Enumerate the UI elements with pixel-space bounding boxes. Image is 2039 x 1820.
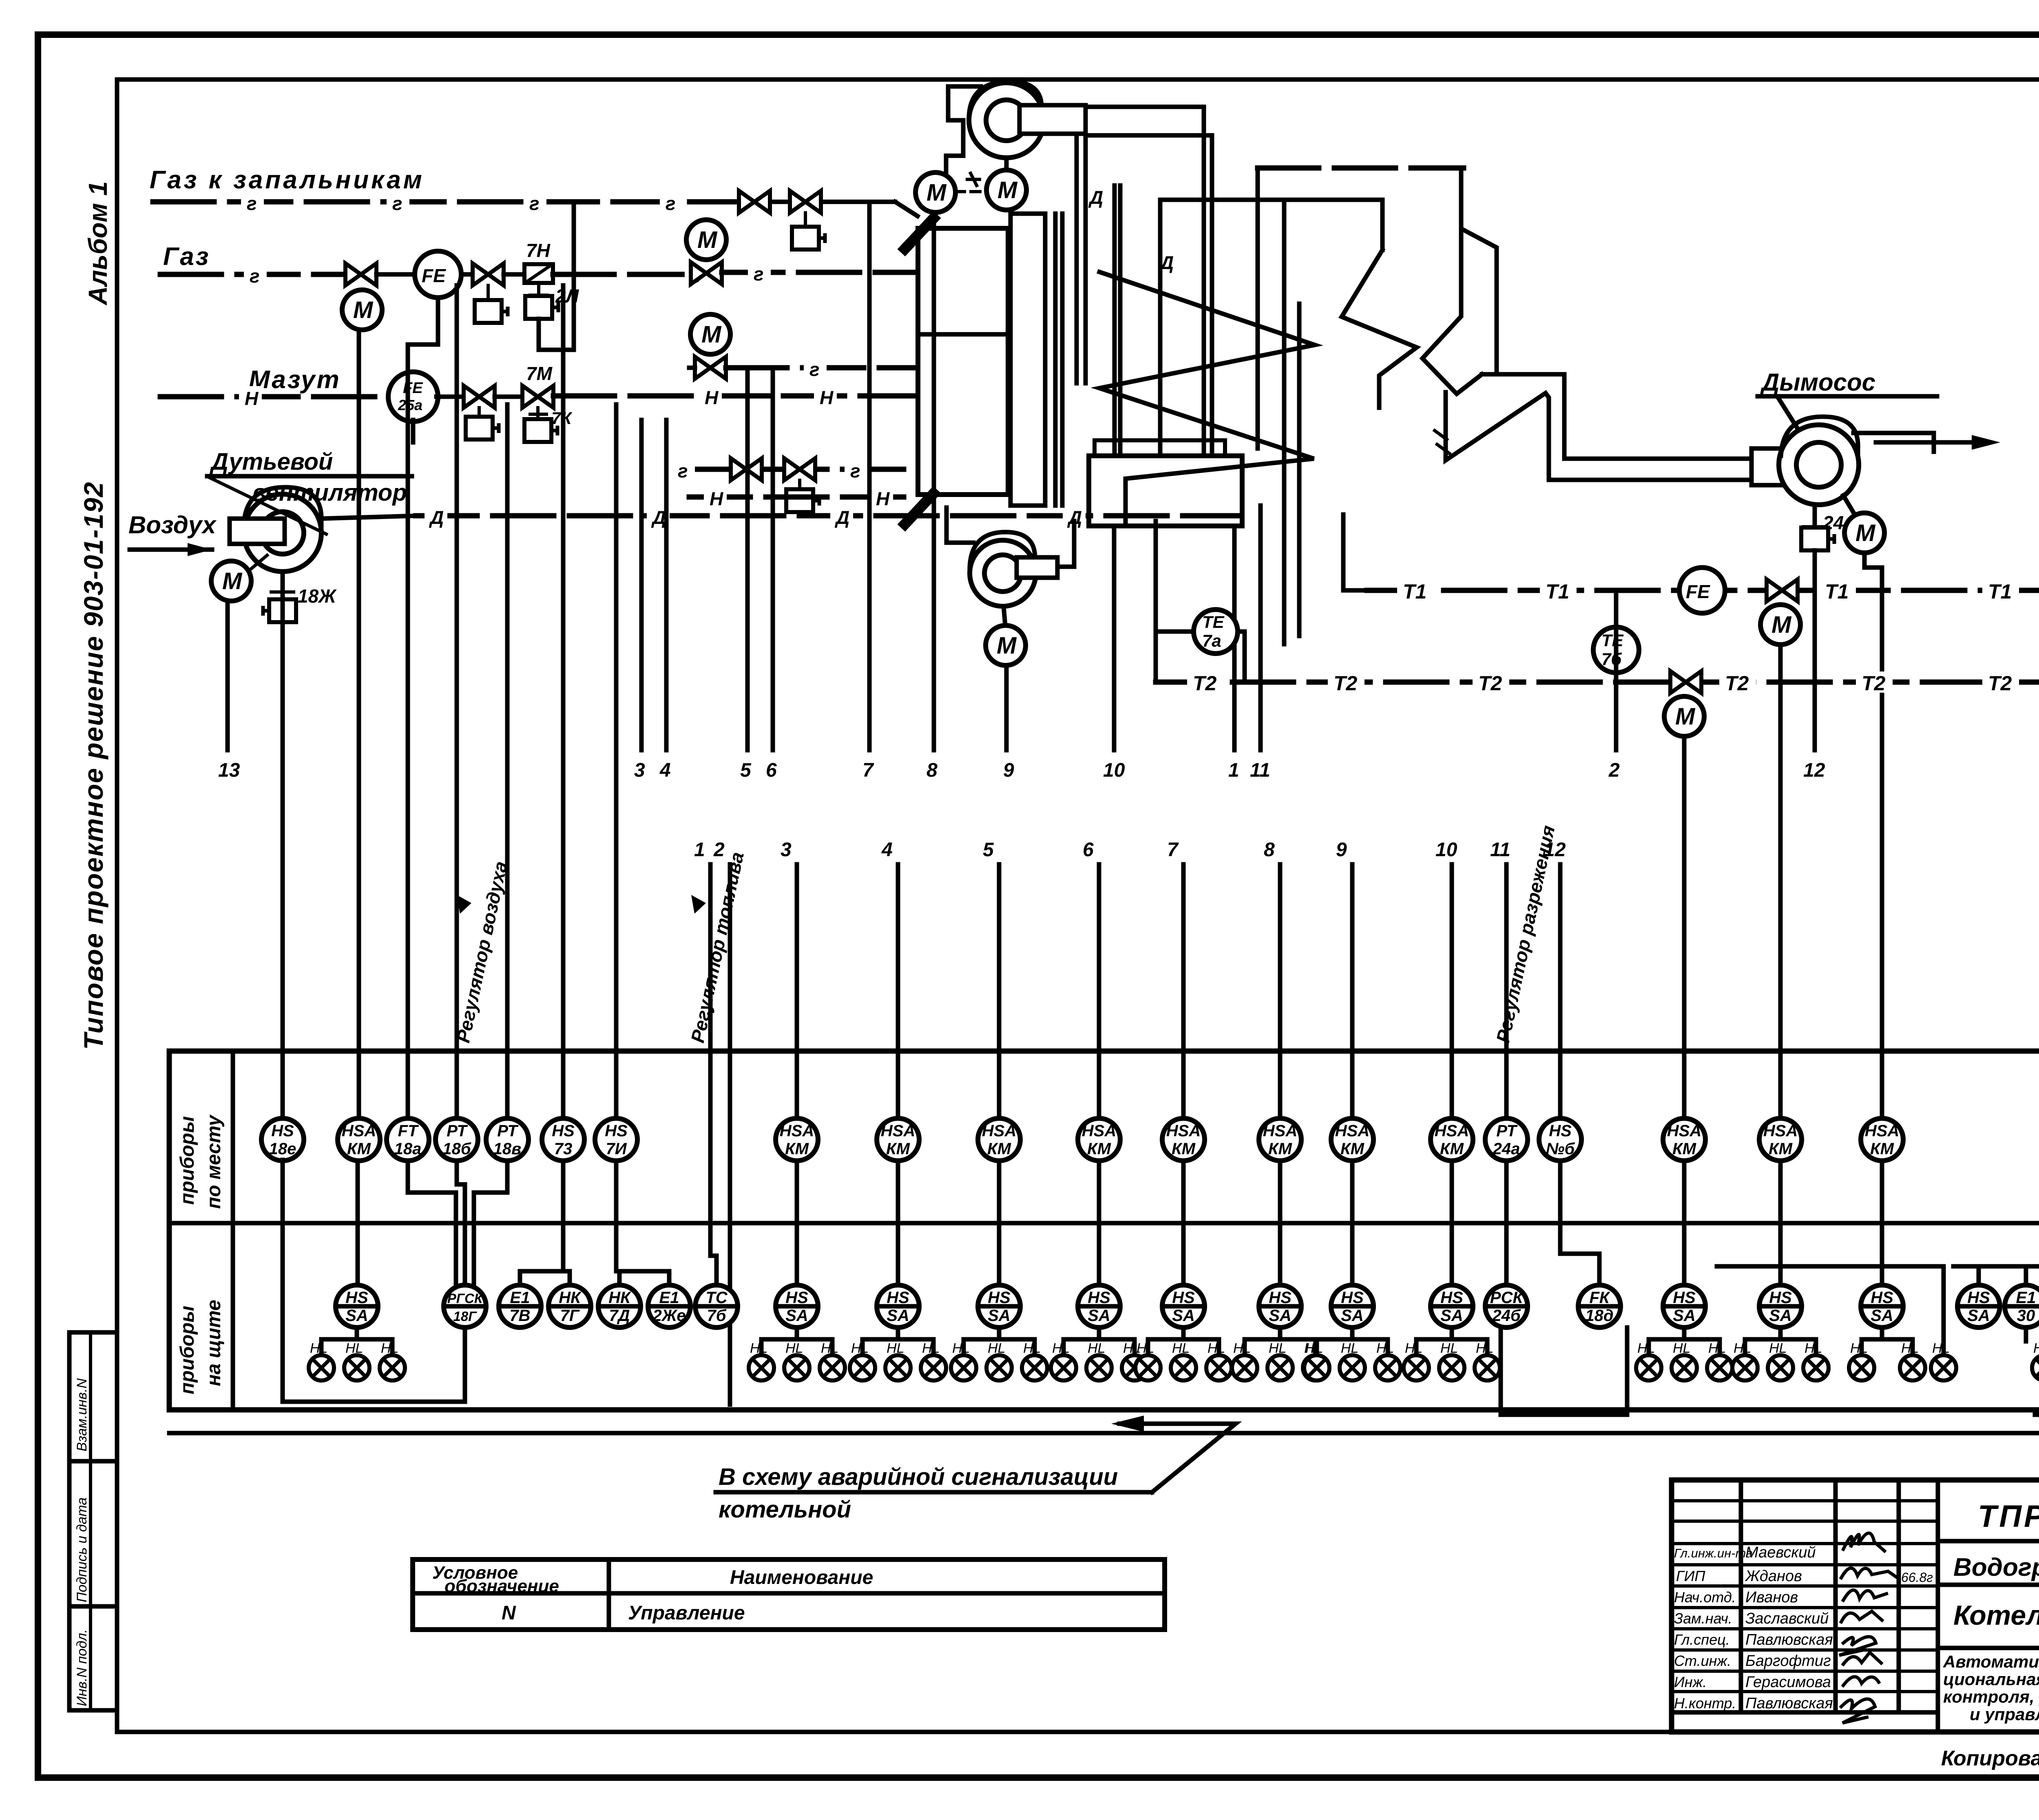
- lamp HL x4565: [1849, 1355, 1874, 1380]
- svg-text:НL: НL: [821, 1341, 838, 1356]
- wire between rows x4366: [1778, 1160, 1783, 1285]
- svg-text:г: г: [529, 193, 540, 214]
- svg-text:РГСК: РГСК: [447, 1291, 484, 1306]
- svg-text:Н: Н: [820, 387, 834, 408]
- top recirculation fan scroll: [969, 83, 1044, 158]
- device 2Л below 7Н: [537, 283, 540, 295]
- svg-text:НL: НL: [1305, 1341, 1323, 1356]
- lamp HL x2815: [1135, 1355, 1161, 1380]
- svg-text:Т2: Т2: [1193, 672, 1217, 695]
- svg-text:Т1: Т1: [1403, 580, 1426, 603]
- tower2 right wall: [1464, 230, 1497, 373]
- svg-text:Н: Н: [705, 387, 719, 408]
- svg-text:ТЕ: ТЕ: [1601, 631, 1624, 650]
- blower intake duct: [230, 519, 285, 544]
- wire FT18a into RGSK: [408, 1160, 456, 1286]
- svg-text:SА: SА: [1088, 1307, 1110, 1325]
- valve on T1 with motor: [1767, 579, 1798, 601]
- svg-text:НК: НК: [608, 1289, 631, 1307]
- svg-text:Мазут: Мазут: [249, 366, 341, 394]
- svg-text:РТ: РТ: [447, 1122, 468, 1140]
- motor of bottom fan: [986, 625, 1026, 665]
- furnace walls: [1011, 214, 1045, 506]
- svg-text:на щите: на щите: [203, 1300, 225, 1386]
- instrument ТС-7б x1757: [695, 1285, 738, 1327]
- outlet arrow: [1876, 440, 1986, 445]
- svg-text:КМ: КМ: [1672, 1140, 1697, 1158]
- svg-text:9: 9: [1003, 760, 1014, 781]
- lamp HL x2202: [885, 1355, 911, 1380]
- exhauster scroll: [1779, 425, 1859, 505]
- wire panel line 3: [795, 864, 799, 1119]
- svg-text:НL: НL: [1207, 1341, 1225, 1356]
- actuator mark: [967, 173, 980, 186]
- svg-text:24б: 24б: [1492, 1307, 1521, 1325]
- svg-text:SА: SА: [1440, 1307, 1463, 1325]
- wire panel line 11: [1504, 864, 1509, 1119]
- svg-text:Гл.инж.ин-та: Гл.инж.ин-та: [1674, 1546, 1753, 1560]
- instrument НSА-КМ x2450: [978, 1118, 1020, 1161]
- svg-text:66.8г: 66.8г: [1901, 1570, 1933, 1585]
- instrument НSА-КМ x4130: [1663, 1118, 1705, 1161]
- svg-text:24а: 24а: [1493, 1140, 1520, 1158]
- svg-text:ГИП: ГИП: [1676, 1568, 1705, 1584]
- svg-text:18в: 18в: [493, 1140, 522, 1158]
- svg-text:7Н: 7Н: [526, 240, 551, 261]
- svg-text:НS: НS: [1440, 1289, 1463, 1307]
- wire HS7I bracket: [616, 1160, 669, 1285]
- svg-text:SА: SА: [1673, 1307, 1696, 1325]
- wire between rows x2450: [997, 1160, 1002, 1285]
- lamp HL x3647: [1475, 1355, 1500, 1380]
- line from box24 down (line 12): [1813, 550, 1817, 750]
- svg-text:FК: FК: [1589, 1289, 1610, 1307]
- fan outlet: [1019, 105, 1086, 134]
- svg-text:3: 3: [781, 839, 792, 861]
- instrument НSА-КМ x4615: [1861, 1118, 1903, 1161]
- svg-text:КМ: КМ: [1870, 1140, 1895, 1158]
- break marks on downcomer: [1435, 431, 1449, 453]
- svg-text:КМ: КМ: [1340, 1140, 1365, 1158]
- svg-text:контроля, регулирования: контроля, регулирования: [1943, 1687, 2039, 1706]
- instrument НК-7Г x1397: [548, 1285, 591, 1327]
- svg-text:7Г: 7Г: [560, 1307, 580, 1325]
- svg-text:Павлювская: Павлювская: [1745, 1631, 1833, 1648]
- svg-text:НL: НL: [952, 1341, 970, 1356]
- gas shutoff valve: [345, 263, 376, 285]
- svg-text:КМ: КМ: [1268, 1140, 1293, 1158]
- lamp HL x4766: [1931, 1355, 1956, 1380]
- T2 pipe: [1154, 521, 1158, 682]
- svg-text:73: 73: [554, 1140, 573, 1158]
- svg-text:Т1: Т1: [1546, 580, 1569, 603]
- svg-text:КМ: КМ: [1769, 1140, 1793, 1158]
- instrument НS-SА x3316: [1331, 1285, 1373, 1327]
- svg-text:№б: №б: [1546, 1140, 1575, 1158]
- wire between rows x2202: [896, 1160, 900, 1285]
- wire lamp bracket group x2202: [862, 1327, 933, 1354]
- svg-text:НSА: НSА: [1435, 1122, 1469, 1140]
- svg-text:НS: НS: [887, 1289, 909, 1307]
- svg-text:НL: НL: [345, 1341, 363, 1356]
- svg-text:котельной: котельной: [719, 1496, 851, 1523]
- lamp HL x2695: [1086, 1355, 1112, 1380]
- svg-text:НSА: НSА: [1166, 1122, 1201, 1140]
- svg-text:2Же: 2Же: [652, 1307, 686, 1325]
- svg-text:НL: НL: [2033, 1341, 2039, 1356]
- svg-text:4: 4: [659, 760, 671, 781]
- svg-text:Ст.инж.: Ст.инж.: [1674, 1652, 1731, 1669]
- economizer slab: [1095, 440, 1225, 456]
- instrument Е1-7В x1275: [499, 1285, 541, 1327]
- svg-text:Т2: Т2: [1988, 672, 2012, 695]
- wire lamp bracket group x4366: [1745, 1327, 1816, 1354]
- wire bus to lamp 5277: [2026, 1327, 2039, 1415]
- instrument FТ-18а x1000: [387, 1118, 429, 1161]
- svg-text:10: 10: [1435, 839, 1457, 861]
- boiler top edges: [1160, 198, 1382, 202]
- instrument НS-SА x1954: [776, 1285, 818, 1327]
- svg-text:7Д: 7Д: [609, 1307, 630, 1325]
- TE 7b sensor on line 2: [1593, 627, 1639, 673]
- svg-text:7И: 7И: [606, 1140, 627, 1158]
- line 8: [932, 214, 936, 750]
- wire HS73 bracket: [520, 1160, 570, 1285]
- instrument НSА-КМ x1954: [776, 1118, 818, 1161]
- instrument НSА-КМ x3560: [1431, 1118, 1473, 1161]
- svg-text:Т1: Т1: [1825, 580, 1849, 603]
- burner slash bottom: [901, 490, 937, 528]
- blower fan scroll: [244, 494, 321, 572]
- svg-text:SА: SА: [1769, 1307, 1792, 1325]
- furnace box: [918, 228, 1008, 495]
- svg-text:НS: НS: [271, 1122, 294, 1140]
- svg-text:Водогрейные котлы типа КВ-ГМ: Водогрейные котлы типа КВ-ГМ: [1953, 1553, 2039, 1581]
- svg-text:НК: НК: [559, 1289, 582, 1307]
- svg-text:SА: SА: [1967, 1307, 1990, 1325]
- wire RGSK down: [283, 1160, 465, 1402]
- TE 7a sensor: [1194, 610, 1238, 654]
- svg-text:5: 5: [983, 839, 994, 861]
- svg-text:SА: SА: [785, 1307, 808, 1325]
- svg-text:Е1: Е1: [2016, 1289, 2036, 1307]
- svg-text:Газ: Газ: [163, 243, 210, 271]
- lamp HL x5014: [2032, 1355, 2039, 1380]
- svg-text:6: 6: [1083, 839, 1094, 861]
- svg-text:18б: 18б: [442, 1140, 471, 1158]
- svg-text:Т2: Т2: [1862, 672, 1886, 695]
- mazut valve with box: [464, 386, 495, 408]
- svg-text:Инв.N подл.: Инв.N подл.: [74, 1629, 90, 1706]
- wire lamp bracket group x2695: [1064, 1327, 1134, 1354]
- svg-text:12: 12: [1803, 760, 1825, 781]
- lamp HL x2289: [921, 1355, 946, 1380]
- instrument НSА-КМ x4366: [1759, 1118, 1802, 1161]
- wire RSK-FK loop: [1501, 1327, 1627, 1415]
- svg-text:НS: НS: [552, 1122, 575, 1140]
- svg-text:КМ: КМ: [886, 1140, 911, 1158]
- svg-text:г: г: [247, 193, 257, 214]
- line 13 from blower motor: [226, 601, 230, 750]
- svg-text:приборы: приборы: [177, 1306, 198, 1394]
- svg-text:25а: 25а: [398, 397, 422, 413]
- svg-text:7М: 7М: [526, 363, 553, 384]
- svg-text:по месту: по месту: [203, 1114, 225, 1209]
- svg-text:НL: НL: [1769, 1341, 1787, 1356]
- svg-text:Наименование: Наименование: [730, 1567, 873, 1588]
- svg-text:30: 30: [2017, 1307, 2035, 1325]
- svg-text:НL: НL: [381, 1341, 398, 1356]
- svg-text:НSА: НSА: [1667, 1122, 1701, 1140]
- svg-text:Д: Д: [651, 507, 666, 528]
- instrument НSА-КМ x3316: [1331, 1118, 1373, 1161]
- instrument НS-SА x3560: [1431, 1285, 1473, 1327]
- svg-text:2: 2: [1608, 760, 1620, 781]
- motor of gas valve: [342, 290, 382, 330]
- wire line PT18v: [505, 404, 510, 1119]
- svg-text:4: 4: [881, 839, 893, 861]
- exhauster motor: [1844, 513, 1884, 553]
- svg-text:Т2: Т2: [1334, 672, 1358, 695]
- svg-text:Инж.: Инж.: [1674, 1674, 1707, 1690]
- line 6: [771, 372, 775, 750]
- instrument НS-SА x4366: [1759, 1285, 1802, 1327]
- svg-text:13: 13: [218, 760, 240, 781]
- lamp HL x3403: [1375, 1355, 1400, 1380]
- svg-text:НSА: НSА: [1335, 1122, 1369, 1140]
- left grid rows: [1672, 1499, 1938, 1502]
- instrument НS-73 x1381: [542, 1118, 584, 1161]
- svg-text:FЕ: FЕ: [1686, 581, 1710, 602]
- lamp HL x3139: [1267, 1355, 1293, 1380]
- left grid columns: [1739, 1480, 1743, 1712]
- svg-text:НL: НL: [1932, 1341, 1950, 1356]
- svg-text:КМ: КМ: [347, 1140, 372, 1158]
- line from motor down to panel: [1864, 553, 1882, 1120]
- valve on T2 with motor: [1670, 671, 1701, 693]
- svg-text:2Л: 2Л: [555, 285, 579, 307]
- instrument РТ-24а x3694: [1485, 1118, 1528, 1161]
- instrument РТ-18б x1120: [436, 1118, 478, 1161]
- svg-text:НL: НL: [1734, 1341, 1751, 1356]
- economizer box: [1089, 456, 1242, 526]
- svg-text:ТЕ: ТЕ: [1202, 612, 1225, 632]
- svg-text:КМ: КМ: [1172, 1140, 1196, 1158]
- svg-text:Дымосос: Дымосос: [1760, 369, 1875, 396]
- wire panel line 10: [1450, 864, 1454, 1119]
- wire panel line 8: [1278, 864, 1283, 1119]
- svg-text:НL: НL: [1137, 1341, 1154, 1356]
- line 3: [639, 420, 644, 750]
- svg-text:НL: НL: [785, 1341, 803, 1356]
- svg-text:НS: НS: [1088, 1289, 1110, 1307]
- svg-text:РСК: РСК: [1490, 1289, 1524, 1307]
- svg-text:Н.контр.: Н.контр.: [1674, 1695, 1736, 1712]
- svg-text:Т1: Т1: [1988, 580, 2012, 603]
- svg-text:11: 11: [1490, 839, 1510, 861]
- svg-text:НS: НS: [1549, 1122, 1572, 1140]
- svg-text:Н: Н: [876, 488, 890, 509]
- svg-text:Е1: Е1: [659, 1289, 679, 1307]
- left margin vertical titles: [78, 181, 113, 1050]
- svg-text:РТ: РТ: [1496, 1122, 1518, 1140]
- svg-text:г: г: [754, 263, 764, 285]
- svg-text:7: 7: [862, 760, 874, 781]
- svg-text:Дутьевой: Дутьевой: [209, 448, 333, 475]
- wire between rows x3694: [1504, 1160, 1509, 1285]
- svg-text:КМ: КМ: [1087, 1140, 1112, 1158]
- wire between rows x3139: [1278, 1160, 1283, 1285]
- svg-text:приборы: приборы: [177, 1116, 198, 1205]
- svg-text:SА: SА: [1269, 1307, 1292, 1325]
- lamp HL x2450: [986, 1355, 1012, 1380]
- svg-text:г: г: [809, 359, 820, 380]
- instrument РТ-18в x1244: [486, 1118, 529, 1161]
- svg-text:Взам.инв.N: Взам.инв.N: [74, 1378, 90, 1451]
- lamp HL x4217: [1707, 1355, 1732, 1380]
- instrument НS-SА x2695: [1078, 1285, 1120, 1327]
- mazut pipe: [160, 394, 389, 400]
- wire between rows x877: [356, 1160, 360, 1285]
- wire line1 to TC7b: [710, 1256, 717, 1285]
- instrument НSА-КМ x880: [338, 1118, 380, 1161]
- instrument РСК-24б x3694: [1485, 1285, 1528, 1327]
- wire between rows x2902: [1181, 1160, 1186, 1285]
- lamp HL x4130: [1672, 1355, 1697, 1380]
- svg-text:НL: НL: [310, 1341, 327, 1356]
- svg-text:SА: SА: [887, 1307, 909, 1325]
- svg-text:НL: НL: [1172, 1341, 1190, 1356]
- wire panel line 2: [728, 864, 732, 1405]
- outlet duct: [1853, 433, 1934, 452]
- instrument НS-7И x1511: [595, 1118, 637, 1161]
- svg-text:8: 8: [927, 760, 938, 781]
- svg-text:РТ: РТ: [497, 1122, 519, 1140]
- instrument НК-7Д x1519: [598, 1285, 641, 1327]
- instrument НS-SА x2450: [978, 1285, 1020, 1327]
- svg-text:НL: НL: [1901, 1341, 1919, 1356]
- lamp HL x3229: [1304, 1355, 1329, 1380]
- wire lamp bracket group x1954: [761, 1327, 832, 1354]
- svg-text:НL: НL: [1673, 1341, 1690, 1356]
- svg-text:6: 6: [766, 760, 777, 781]
- svg-text:18д: 18д: [1585, 1307, 1613, 1325]
- svg-text:НL: НL: [887, 1341, 904, 1356]
- gas branch to burner: [722, 270, 916, 275]
- valve actuator 18Ж: [281, 572, 285, 587]
- left bottom stamp strip: [69, 1332, 117, 1710]
- wire between rows x2695: [1097, 1160, 1101, 1285]
- wire between rows x4130: [1682, 1160, 1687, 1285]
- svg-text:НSА: НSА: [1763, 1122, 1798, 1140]
- wire lamp bracket group x2902: [1148, 1327, 1219, 1354]
- water offtake to T1: [1343, 515, 1367, 590]
- instrument НSА-КМ x2902: [1162, 1118, 1205, 1161]
- svg-text:SА: SА: [1172, 1307, 1195, 1325]
- svg-text:НS: НS: [1673, 1289, 1696, 1307]
- svg-text:Альбом 1: Альбом 1: [83, 181, 113, 306]
- lamp HL x2989: [1206, 1355, 1232, 1380]
- wire PT18b into RGSK: [457, 1160, 465, 1285]
- svg-text:НL: НL: [1637, 1341, 1655, 1356]
- T1 pipe: [1367, 588, 2039, 593]
- tower2 inlet wall: [1380, 200, 1385, 250]
- lamp HL x2782: [1122, 1355, 1147, 1380]
- svg-text:НL: НL: [1708, 1341, 1726, 1356]
- wire line12 to FK18d: [1560, 1160, 1599, 1285]
- wire panel line 1: [708, 864, 713, 1256]
- wire lamp bracket group x3139: [1245, 1327, 1316, 1354]
- valve with box on pilot line: [790, 191, 821, 213]
- line 5: [745, 372, 750, 750]
- instrument НSА-КМ x2202: [877, 1118, 919, 1161]
- svg-text:В схему аварийной сигнализа: В схему аварийной сигнализации: [719, 1464, 1118, 1490]
- signatures scribbles: [1843, 1533, 1884, 1551]
- wire lamp bracket group x4130: [1649, 1327, 1720, 1354]
- wire between rows x1954: [795, 1160, 799, 1285]
- instrument FК-18д x3922: [1578, 1285, 1621, 1327]
- svg-text:НL: НL: [1850, 1341, 1868, 1356]
- svg-text:18а: 18а: [394, 1140, 422, 1158]
- svg-text:11: 11: [1250, 760, 1270, 781]
- heating-surface zigzag 1: [1099, 272, 1315, 524]
- svg-text:НS: НS: [1769, 1289, 1792, 1307]
- instrument НS-№б x3826: [1539, 1118, 1581, 1161]
- recirculation fan bottom scroll: [970, 540, 1036, 606]
- svg-text:Иванов: Иванов: [1745, 1589, 1798, 1606]
- wire between rows x4615: [1880, 1160, 1884, 1285]
- svg-text:Н: Н: [245, 388, 259, 409]
- svg-text:Зам.нач.: Зам.нач.: [1674, 1610, 1732, 1627]
- wire panel line 7: [1181, 864, 1186, 1119]
- svg-text:7б: 7б: [1601, 649, 1622, 669]
- svg-text:НS: НS: [1172, 1289, 1195, 1307]
- svg-text:Жданов: Жданов: [1745, 1568, 1802, 1585]
- svg-text:КМ: КМ: [785, 1140, 809, 1158]
- wire lamp bracket group x4615: [1862, 1327, 1913, 1354]
- wire panel line 6: [1097, 864, 1101, 1119]
- svg-text:SА: SА: [1871, 1307, 1893, 1325]
- instrument НS-SА x4130: [1663, 1285, 1705, 1327]
- tower1 inner walls: [1282, 200, 1287, 644]
- control valve gas: [473, 263, 504, 285]
- svg-text:обозначение: обозначение: [445, 1576, 559, 1596]
- svg-text:НL: НL: [1805, 1341, 1822, 1356]
- svg-text:НL: НL: [988, 1341, 1005, 1356]
- svg-text:Копировал: Р: Копировал: Р: [1941, 1747, 2039, 1770]
- svg-text:Типовое проектное решение 9: Типовое проектное решение 903-01-192: [78, 481, 108, 1050]
- svg-text:SА: SА: [345, 1307, 368, 1325]
- svg-text:г: г: [250, 265, 260, 287]
- wire lamp bracket group x3560: [1416, 1327, 1487, 1354]
- inner frame: [117, 77, 2039, 82]
- svg-text:НS: НS: [1871, 1289, 1893, 1307]
- svg-text:FТ: FТ: [398, 1122, 419, 1140]
- lamp HL x4690: [1900, 1355, 1925, 1380]
- svg-text:КМ: КМ: [1440, 1140, 1464, 1158]
- svg-text:НS: НS: [345, 1289, 368, 1307]
- svg-text:Павлювская: Павлювская: [1745, 1695, 1833, 1712]
- wire between rows x3560: [1450, 1160, 1454, 1285]
- lamp HL x962: [380, 1355, 405, 1380]
- duct from furnace to bottom fan: [947, 508, 973, 543]
- svg-text:г: г: [666, 193, 676, 214]
- wire panel line 4: [896, 864, 900, 1119]
- svg-text:НS: НS: [1967, 1289, 1990, 1307]
- lamp HL x4453: [1803, 1355, 1829, 1380]
- lamp HL x1954: [784, 1355, 809, 1380]
- svg-text:Управление: Управление: [628, 1602, 745, 1624]
